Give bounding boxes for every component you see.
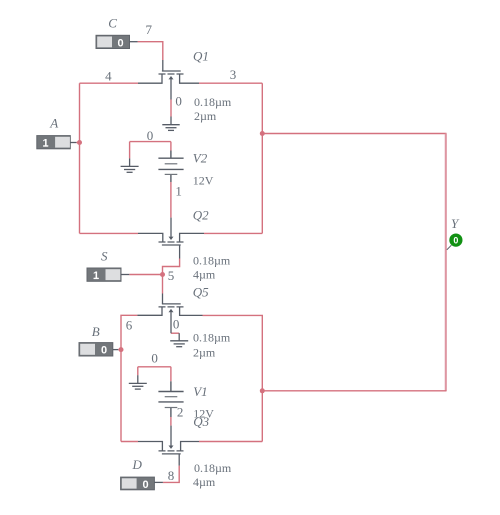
wire Q2 right [204, 232, 262, 234]
svg-text:A: A [49, 116, 58, 131]
ground near V2 [121, 158, 139, 172]
svg-text:S: S [101, 249, 108, 264]
transistor Q5 [137, 294, 202, 334]
wire Q1 bulk net0 [170, 100, 172, 117]
wire S stub [129, 274, 162, 276]
svg-text:1: 1 [93, 270, 99, 282]
svg-text:0.18µm: 0.18µm [193, 254, 231, 268]
svg-text:V2: V2 [193, 151, 208, 166]
node A junction [77, 140, 82, 145]
wire left vertical net A [79, 83, 81, 233]
battery V1 [158, 381, 183, 417]
wire V2 ground horizontal [130, 142, 171, 159]
svg-text:0.18µm: 0.18µm [194, 95, 232, 109]
wire bottom left horizontal [121, 441, 138, 443]
svg-text:Q3: Q3 [193, 414, 209, 429]
svg-text:7: 7 [146, 22, 153, 37]
wire Q5 right [203, 315, 263, 441]
svg-text:D: D [132, 457, 143, 472]
wire node4 top horizontal [80, 82, 139, 84]
wire B stub [118, 349, 121, 351]
svg-text:3: 3 [230, 67, 237, 82]
node B junction [119, 347, 124, 352]
wire bottom right horizontal [199, 441, 262, 443]
wire to Y horizontal [262, 133, 446, 135]
svg-text:1: 1 [43, 138, 49, 150]
svg-text:0: 0 [147, 128, 154, 143]
svg-text:0: 0 [143, 479, 149, 491]
wire Q3 gate to net8 [163, 466, 179, 483]
wire Q5 left to net6 [121, 315, 137, 441]
svg-text:1: 1 [175, 184, 182, 199]
wire Q2 gate to node5 [163, 259, 180, 275]
svg-text:2µm: 2µm [193, 346, 216, 360]
svg-text:Q2: Q2 [193, 208, 209, 223]
svg-text:2µm: 2µm [194, 109, 217, 123]
probe Y [447, 234, 463, 250]
transistor Q2 [138, 218, 204, 259]
svg-text:12V: 12V [193, 174, 214, 188]
node junction at 262,390 [260, 388, 265, 393]
node 5 junction [160, 272, 165, 277]
svg-text:C: C [108, 15, 117, 30]
svg-text:0: 0 [173, 316, 180, 331]
wire Q2 left [80, 232, 139, 234]
svg-text:5: 5 [168, 268, 175, 283]
wire right vertical upper [261, 83, 263, 233]
wire Q5 bulk jog [171, 332, 179, 334]
svg-text:0: 0 [151, 351, 158, 366]
ground near V1 [129, 375, 147, 389]
transistor Q1 [138, 60, 199, 100]
svg-text:Y: Y [451, 216, 460, 231]
wire net1 V2 to Q2 bulk [170, 182, 172, 218]
svg-text:B: B [92, 324, 100, 339]
svg-text:0: 0 [453, 236, 458, 246]
svg-text:0: 0 [118, 37, 124, 49]
svg-text:0.18µm: 0.18µm [193, 331, 231, 345]
battery V2 [158, 151, 183, 183]
wire node3 top horizontal [199, 82, 262, 84]
svg-text:0.18µm: 0.18µm [194, 461, 232, 475]
svg-text:6: 6 [126, 318, 133, 333]
input source B [79, 343, 118, 357]
svg-text:V1: V1 [193, 384, 207, 399]
node junction at 262,133 [260, 131, 265, 136]
input source C [96, 35, 138, 49]
svg-text:0: 0 [175, 94, 182, 109]
input source S [87, 268, 129, 282]
wire net2 V1 to Q3 bulk [170, 417, 172, 426]
input source D [121, 477, 163, 491]
svg-text:4µm: 4µm [193, 475, 216, 489]
wire Y vertical [445, 134, 447, 391]
wire A stub [76, 142, 79, 144]
wire V1 ground horizontal [138, 367, 171, 382]
ground under Q5 [170, 333, 188, 347]
wire net7 C to Q1 gate [138, 42, 163, 60]
svg-text:0: 0 [101, 345, 107, 357]
svg-text:4µm: 4µm [193, 268, 216, 282]
svg-text:Q5: Q5 [193, 285, 209, 300]
svg-text:2: 2 [177, 404, 184, 419]
svg-text:Q1: Q1 [193, 48, 209, 63]
svg-text:4: 4 [105, 68, 112, 83]
wire node5 to Q5 gate [162, 275, 164, 294]
wire Y bottom horizontal [262, 390, 446, 392]
ground under Q1 [162, 117, 179, 131]
svg-text:8: 8 [168, 468, 175, 483]
input source A [37, 136, 77, 150]
transistor Q3 [138, 426, 199, 466]
